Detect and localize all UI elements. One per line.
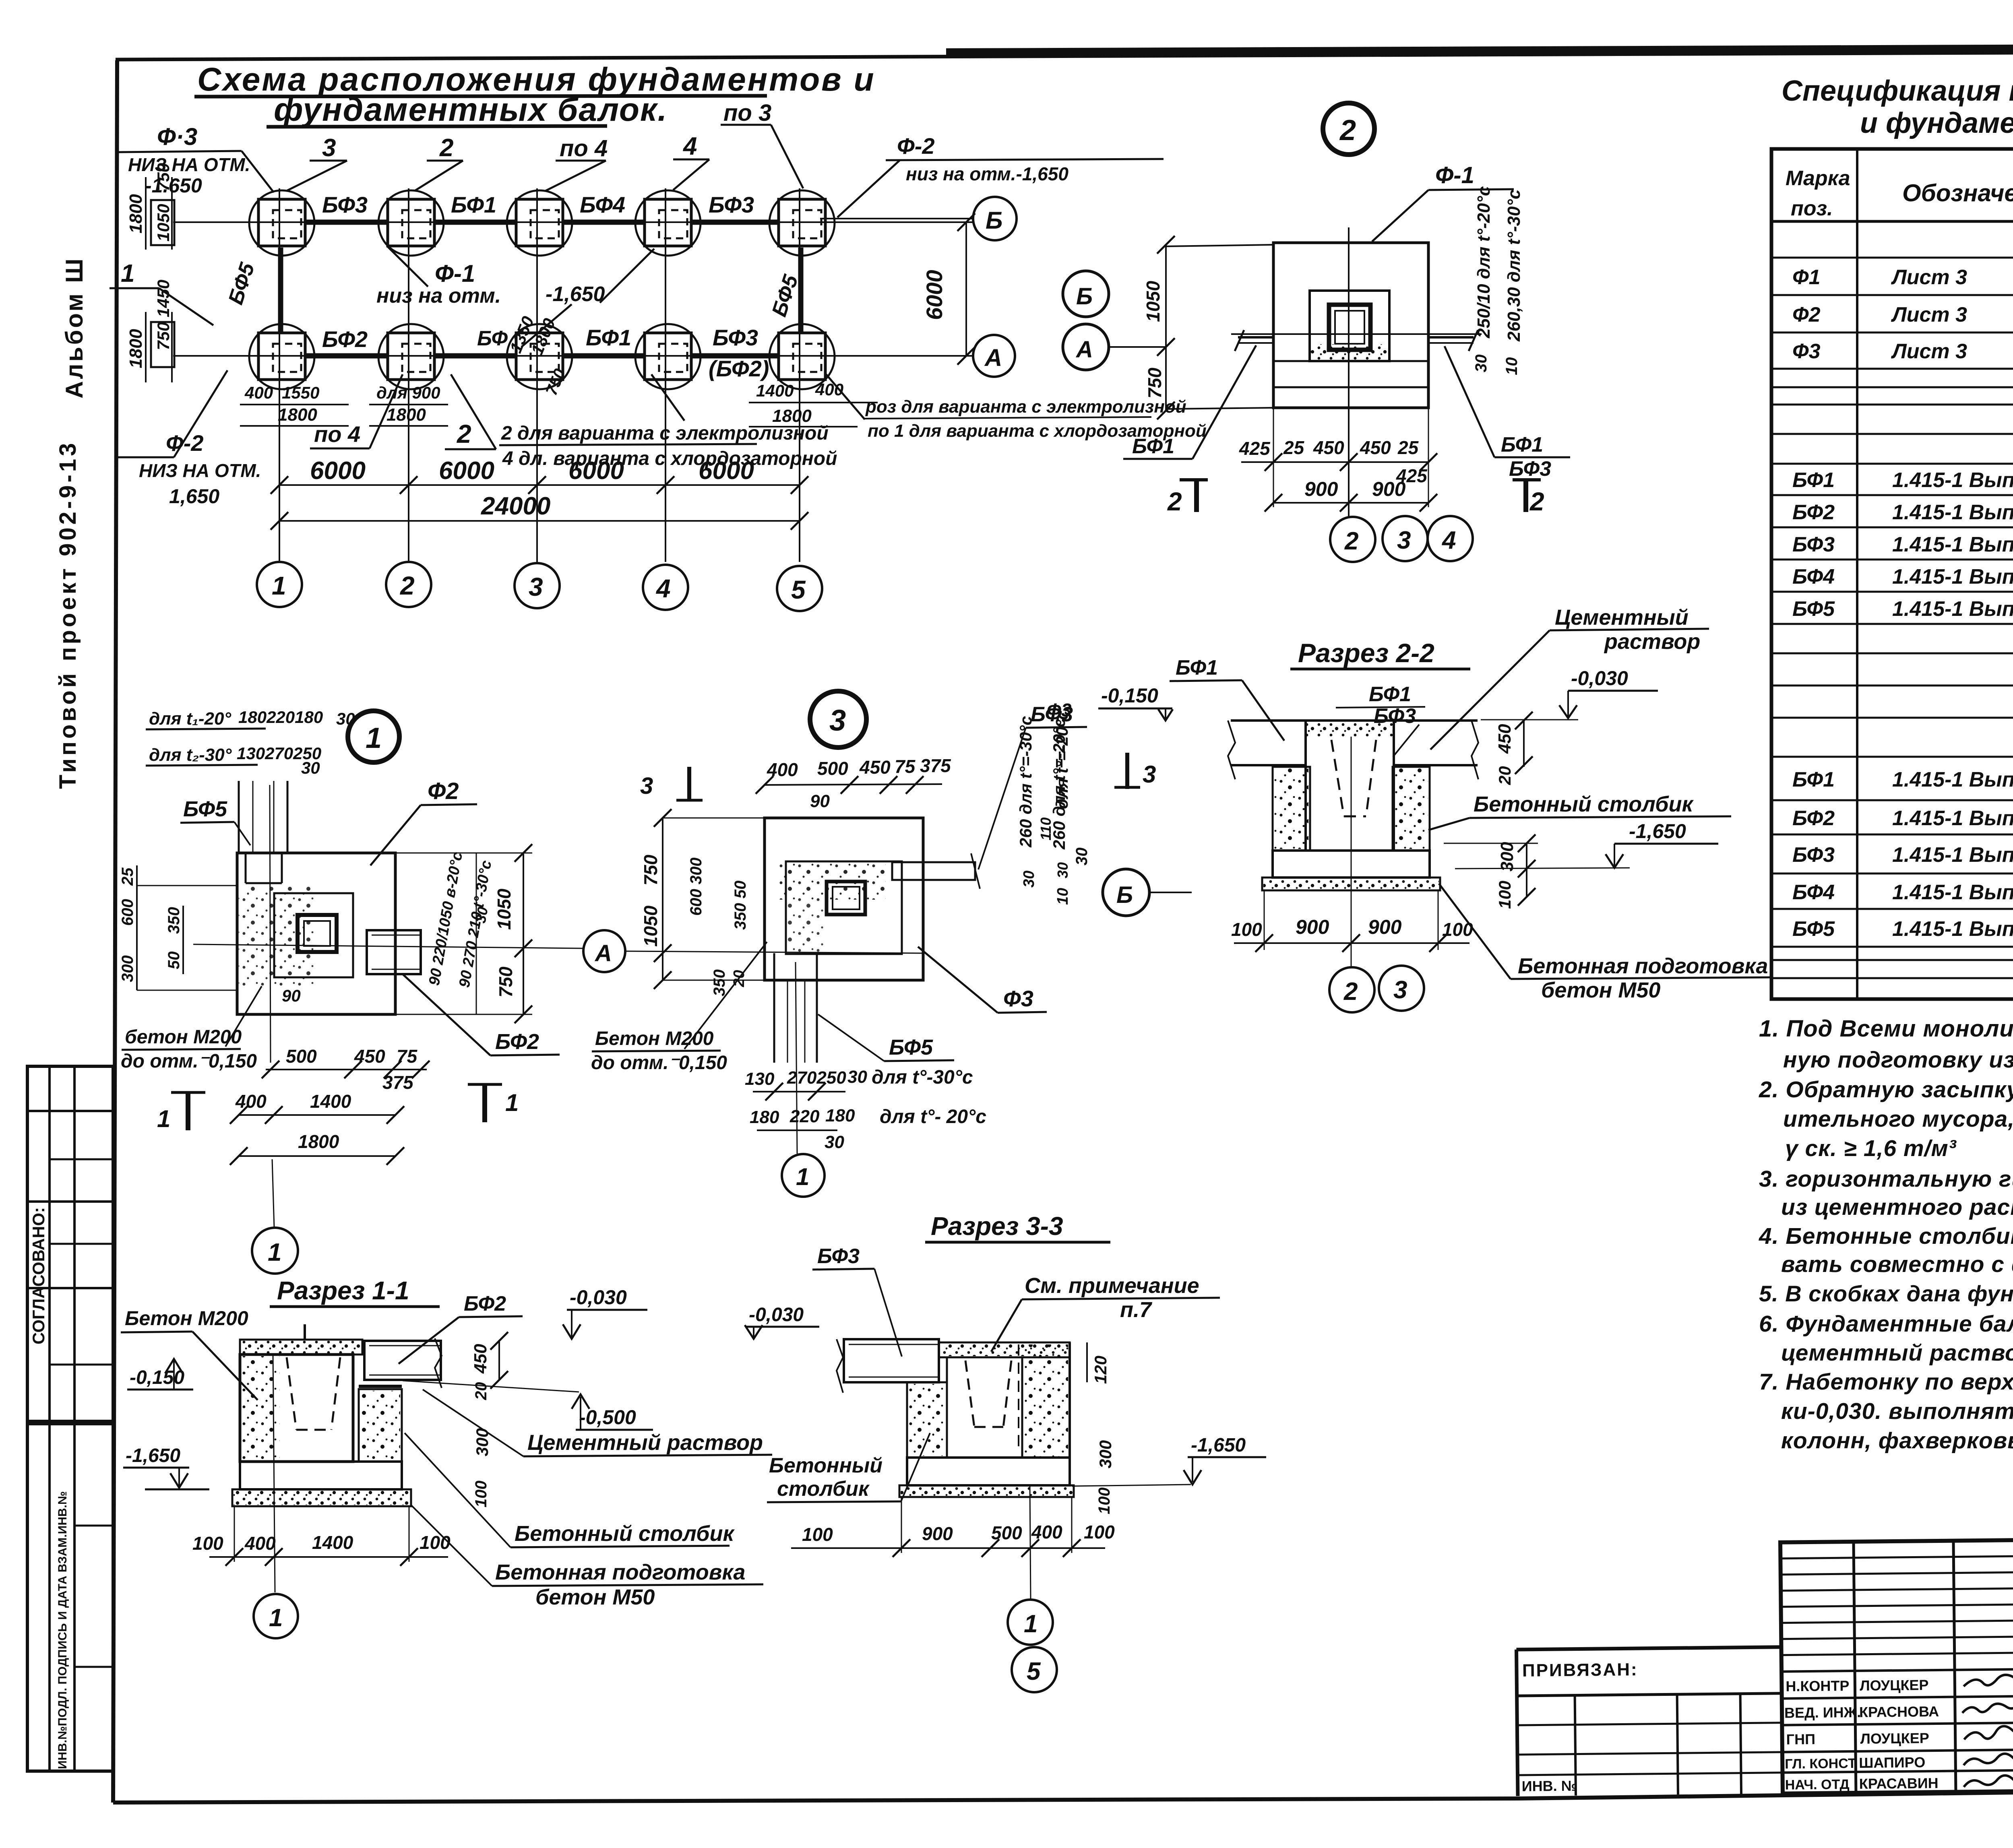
plan: grid bubble 5 (777, 566, 822, 611)
section 1-1: elevation -1,650 left (123, 1445, 209, 1489)
section 1-1: label Цементный раствор (423, 1390, 772, 1456)
svg-text:2: 2 (457, 419, 471, 448)
detail 1: бетон М200 label (121, 986, 262, 1072)
svg-text:Б: Б (1076, 283, 1093, 310)
plan: callout 4 (673, 132, 709, 190)
svg-text:450: 450 (1495, 724, 1515, 754)
svg-text:30: 30 (301, 758, 320, 777)
detail 1: left rotated dims (119, 865, 238, 990)
svg-text:1: 1 (268, 1239, 281, 1266)
detail 2: beam БФ1 left (1235, 330, 1273, 351)
svg-text:Спецификация к схеме расположе: Спецификация к схеме расположения фундам… (1782, 75, 2013, 107)
svg-text:ИНВ.№ПОДЛ. ПОДПИСЬ И ДАТА ВЗ: ИНВ.№ПОДЛ. ПОДПИСЬ И ДАТА ВЗАМ.ИНВ.№ (56, 1491, 69, 1769)
section 1-1: right rotated dims 450 20 300 100 (471, 1332, 508, 1507)
detail 3: label Ф3 (918, 947, 1047, 1013)
plan: foundation beam БФ3 (Б,4-5) (691, 220, 778, 225)
svg-text:1: 1 (121, 260, 134, 287)
detail 1: axis horizontal (193, 944, 583, 948)
svg-text:Цементный: Цементный (1555, 605, 1689, 630)
svg-text:Бетонная подготовка: Бетонная подготовка (1518, 954, 1768, 978)
svg-text:1.415-1 Вып.1: 1.415-1 Вып.1 (1892, 881, 2013, 904)
plan: column axis vertical 3 (536, 188, 538, 562)
svg-text:БФ4: БФ4 (1792, 881, 1835, 904)
svg-text:3: 3 (529, 572, 543, 601)
plan: callout Ф-3 top left (117, 123, 274, 197)
svg-text:1.415-1 Вып.1: 1.415-1 Вып.1 (1892, 501, 2013, 524)
svg-text:БФ2: БФ2 (1792, 807, 1835, 830)
section 3-3: foundation body (939, 1342, 1070, 1458)
svg-text:-1,650: -1,650 (126, 1445, 180, 1466)
svg-text:350 50: 350 50 (732, 881, 749, 930)
svg-text:БФ5: БФ5 (1792, 597, 1835, 621)
plan: callout по 4 bottom (310, 374, 403, 448)
section 2-2 title (1290, 638, 1470, 669)
svg-text:БФ2: БФ2 (464, 1292, 506, 1315)
detail 2: rotated labels для t (1472, 186, 1524, 375)
detail 1: beam БФ5 vertical from top (239, 781, 287, 853)
svg-text:БФ4: БФ4 (1792, 565, 1835, 588)
svg-text:750: 750 (154, 163, 173, 191)
svg-text:А: А (594, 940, 612, 966)
svg-text:600: 600 (119, 899, 136, 926)
svg-text:4. Бетонные столбики под фунда: 4. Бетонные столбики под фундаментные ба… (1759, 1223, 2013, 1249)
svg-text:1.415-1 Вып.1: 1.415-1 Вып.1 (1892, 917, 2013, 941)
section 2-2: label Бетонный столбик (1428, 792, 1731, 830)
svg-text:400: 400 (815, 380, 843, 399)
plan: column axis vertical 5 (799, 188, 800, 562)
detail 3: label Бетон М200 (591, 942, 767, 1074)
svg-text:Обозначение: Обозначение (1902, 180, 2013, 206)
svg-text:бетон М200: бетон М200 (125, 1026, 242, 1048)
svg-text:Ф·3: Ф·3 (157, 123, 197, 150)
section 1-1: axis + bubble 1 bottom (254, 1355, 298, 1638)
detail 2: concrete dots under column (1311, 344, 1388, 361)
svg-text:Б: Б (986, 207, 1002, 234)
svg-text:цементный раствор.: цементный раствор. (1781, 1340, 2013, 1366)
svg-text:Ф-2: Ф-2 (897, 133, 935, 159)
svg-text:1050: 1050 (154, 204, 173, 242)
section 1-1: label Бетон М200 (121, 1307, 258, 1400)
plan: foundation beam БФ1 (Б,2-3) (434, 220, 516, 225)
detail 3: outer foundation square (765, 818, 923, 980)
svg-text:бетон М50: бетон М50 (1541, 978, 1660, 1002)
svg-text:100: 100 (1084, 1522, 1115, 1542)
svg-text:Ф2: Ф2 (428, 778, 459, 804)
svg-text:1.415-1 Вып.1: 1.415-1 Вып.1 (1892, 597, 2013, 621)
plan: dims under foundation А5 (749, 380, 878, 427)
svg-text:300: 300 (1497, 842, 1517, 871)
svg-text:1: 1 (796, 1163, 809, 1190)
detail 2: bottom band line (1273, 360, 1428, 362)
svg-text:2: 2 (1343, 978, 1358, 1006)
svg-text:А: А (1075, 337, 1093, 363)
section 2-2: dim 450 20 right (1495, 712, 1533, 785)
svg-text:Лист 3: Лист 3 (1891, 303, 1967, 326)
detail 1: beam slot U at top (246, 853, 282, 883)
detail 3: beam stub right (892, 853, 980, 889)
detail 1: rotated dim columns right (426, 851, 495, 989)
svg-text:Лист 3: Лист 3 (1891, 266, 1967, 289)
detail 1: section mark 1 left (157, 1092, 205, 1132)
section 1-1: vertical mark on top (304, 1324, 306, 1340)
section 3-3: axis + bubbles 1 5 (1008, 1485, 1057, 1692)
svg-text:и фундаментных балок.: и фундаментных балок. (1860, 107, 2013, 139)
svg-text:-0,030: -0,030 (1571, 667, 1628, 690)
svg-text:50: 50 (165, 952, 183, 970)
svg-text:90 270 210 t°-30°с: 90 270 210 t°-30°с (456, 859, 495, 989)
svg-text:БФ1: БФ1 (1176, 656, 1218, 679)
svg-text:для t₂-30°: для t₂-30° (149, 745, 232, 765)
detail 1: bottom dim 1800 (230, 1131, 404, 1165)
section 2-2: axis line down (1351, 737, 1352, 966)
svg-text:γ ск. ≥ 1,6 т/м³: γ ск. ≥ 1,6 т/м³ (1785, 1136, 1957, 1161)
svg-text:400: 400 (235, 1091, 267, 1112)
section 2-2: column outer (1306, 721, 1394, 851)
plan: foundation at axis 4/B (635, 190, 701, 256)
plan: grid bubble 2 (386, 562, 431, 607)
svg-text:300: 300 (119, 955, 136, 982)
svg-text:ную подготовку из бетона м50 т: ную подготовку из бетона м50 толщиной 10… (1783, 1047, 2013, 1073)
detail 1: right dim extensions 1050 750 (395, 844, 532, 1023)
svg-text:БФ1: БФ1 (1501, 433, 1543, 456)
svg-text:100: 100 (1495, 881, 1514, 909)
svg-text:Бетонный столбик: Бетонный столбик (1474, 792, 1694, 816)
detail 1: inner square (274, 893, 353, 977)
svg-text:500: 500 (991, 1522, 1022, 1543)
left margin stamp table (СОГЛАСОВАНО) (27, 1066, 113, 1421)
left margin stamp table 2 (ИНВ №) (27, 1424, 113, 1771)
svg-text:90: 90 (810, 791, 830, 811)
title block: left ПРИВЯЗАН box (1517, 1647, 1783, 1796)
plan: variant note right (826, 374, 1207, 441)
detail 2: axis vertical (1348, 227, 1350, 517)
section 3-3: right column dots (1024, 1344, 1068, 1456)
svg-text:425: 425 (1239, 438, 1271, 459)
plan: callout 3 (287, 134, 347, 191)
section 3-3: beam БФ3 left (837, 1339, 939, 1393)
svg-text:для t°- 20°с: для t°- 20°с (880, 1106, 986, 1127)
plan: grid bubble 4 (643, 565, 688, 610)
title block: central signature table (1780, 1540, 2013, 1794)
svg-text:90: 90 (282, 986, 301, 1005)
svg-text:-0,150: -0,150 (130, 1367, 184, 1388)
svg-text:БФ5: БФ5 (224, 260, 259, 308)
svg-text:5. В скобках дана фундаментная: 5. В скобках дана фундаментная балка для… (1759, 1281, 2013, 1306)
svg-text:1.415-1 Вып.1: 1.415-1 Вып.1 (1892, 565, 2013, 588)
plan: foundation at axis 1/B (249, 190, 314, 256)
svg-text:75: 75 (895, 756, 916, 777)
svg-text:1: 1 (505, 1089, 519, 1116)
svg-text:НАЧ. ОТД: НАЧ. ОТД (1785, 1777, 1850, 1793)
svg-text:низ на отм.-1,650: низ на отм.-1,650 (906, 163, 1069, 184)
plan: grid bubble 1 (257, 562, 302, 607)
svg-text:ЛОУЦКЕР: ЛОУЦКЕР (1860, 1730, 1929, 1747)
detail 1: axis vertical (270, 785, 271, 1063)
section 2-2: concrete post left (1273, 767, 1310, 851)
svg-text:БФ2: БФ2 (495, 1030, 539, 1054)
section 2-2: bottom dims 100 900 900 100 (1231, 890, 1473, 952)
detail 1 bubble (348, 711, 399, 762)
svg-text:НИЗ НА ОТМ.: НИЗ НА ОТМ. (139, 460, 261, 481)
detail 2: outer foundation square (1273, 243, 1428, 408)
svg-text:450: 450 (859, 757, 891, 778)
svg-text:180: 180 (825, 1106, 855, 1125)
svg-text:по 3: по 3 (723, 100, 771, 126)
svg-text:для 900: для 900 (376, 383, 440, 402)
section 2-2: elevation -1,650 (1455, 820, 1718, 869)
spec table headers (1786, 167, 2013, 221)
svg-text:130: 130 (745, 1069, 775, 1089)
svg-text:1800: 1800 (126, 194, 146, 233)
svg-text:БФ1: БФ1 (1132, 435, 1174, 458)
svg-text:350: 350 (165, 907, 183, 934)
plan: dim line 6000 row (271, 457, 808, 494)
svg-text:ки-0,030. выполнять из бетона: ки-0,030. выполнять из бетона марки „100… (1781, 1398, 2013, 1424)
plan: foundation beam БФ3 (Б,1-2) (305, 220, 387, 225)
svg-text:10: 10 (1503, 357, 1521, 376)
svg-text:30: 30 (1472, 355, 1490, 373)
detail 1: top dims для t -20 (146, 708, 355, 729)
plan: axis line А (173, 355, 974, 357)
svg-text:30: 30 (1021, 871, 1038, 888)
svg-text:Лист 3: Лист 3 (1891, 340, 1967, 363)
svg-text:Разрез 2-2: Разрез 2-2 (1298, 638, 1434, 668)
detail 2: inner column square (1329, 305, 1370, 350)
detail 2: label БФ1 БФ3 right (1445, 346, 1570, 481)
section 1-1: pedestal (240, 1462, 402, 1489)
svg-text:до отм.⁻0,150: до отм.⁻0,150 (591, 1052, 727, 1074)
section 2-2: beam band right (1394, 721, 1478, 779)
detail 3 bubble (810, 691, 866, 747)
svg-text:6000: 6000 (310, 457, 366, 485)
section 2-2: dims 300 100 right (1444, 834, 1538, 909)
detail 3: axis horizontal + А bubble (583, 930, 923, 972)
detail 3: rotated для t labels right (1016, 716, 1071, 905)
svg-text:20: 20 (472, 1382, 490, 1401)
svg-text:400: 400 (1031, 1522, 1062, 1542)
svg-text:3: 3 (322, 134, 336, 162)
section 1-1: bottom dims 100 400 1400 100 (192, 1506, 451, 1566)
svg-text:4 дл. варианта с хлордозаторно: 4 дл. варианта с хлордозаторной (502, 448, 837, 469)
detail 1: concrete dots area (239, 886, 315, 988)
svg-text:750: 750 (543, 366, 569, 398)
svg-text:2: 2 (1529, 487, 1544, 516)
plan: foundation beam БФ3(БФ2) (А,4-5) (691, 353, 778, 359)
svg-text:Разрез 3-3: Разрез 3-3 (931, 1212, 1063, 1241)
svg-text:БФ3: БФ3 (817, 1245, 860, 1268)
svg-text:БФ1: БФ1 (586, 325, 631, 350)
svg-text:1050: 1050 (1143, 281, 1164, 322)
svg-text:24000: 24000 (481, 492, 550, 520)
detail 3: beam БФ5 down (774, 953, 817, 1063)
section 3-3: elevation -1,650 right (1072, 1435, 1266, 1486)
section 2-2: column top dotted band (1307, 722, 1393, 737)
plan: callout 2 bottom + variant note (445, 374, 837, 469)
section 1-1: label Бетонный столбик (405, 1433, 735, 1547)
svg-text:БФ3: БФ3 (709, 192, 754, 217)
svg-text:450: 450 (1360, 437, 1391, 458)
svg-text:400: 400 (244, 1533, 276, 1554)
svg-text:3: 3 (1393, 976, 1407, 1004)
detail 3: axis vertical to bubble 1 (796, 962, 797, 1154)
svg-text:БФ5: БФ5 (183, 797, 227, 821)
section 3-3: rotated dims right (1087, 1342, 1115, 1514)
section 1-1: elevation -0,500 right (403, 1381, 653, 1430)
svg-text:30: 30 (847, 1067, 867, 1087)
svg-text:БФ3: БФ3 (1509, 457, 1551, 481)
section 3-3: bottom dims 100 900 500 400 100 (791, 1497, 1115, 1557)
svg-text:450: 450 (354, 1046, 385, 1067)
svg-text:400: 400 (244, 383, 273, 402)
svg-text:3: 3 (829, 704, 846, 737)
svg-text:из цементного раствора состава: из цементного раствора состава 1:2, толщ… (1781, 1194, 2013, 1220)
svg-text:БФ1: БФ1 (1369, 683, 1411, 706)
plan: callout по 3 (721, 100, 803, 188)
section 1-1: stakan dashed (287, 1357, 340, 1430)
svg-text:270250: 270250 (787, 1068, 846, 1088)
svg-text:Ф-1: Ф-1 (1435, 162, 1474, 188)
svg-text:1: 1 (1024, 1610, 1038, 1638)
svg-text:1800: 1800 (772, 406, 812, 426)
svg-text:Цементный раствор: Цементный раствор (527, 1431, 763, 1455)
section 3-3 title (925, 1212, 1110, 1242)
svg-text:БФ1: БФ1 (1792, 768, 1835, 791)
plan: axis line Б (173, 221, 974, 223)
section 2-2: labels БФ1 БФ3 above column (1336, 683, 1425, 757)
section 1-1: foundation body (240, 1355, 353, 1462)
svg-text:260 для t°=-30°с: 260 для t°=-30°с (1016, 716, 1035, 848)
detail 2: label БФ1 left (1123, 345, 1256, 459)
svg-text:1,650: 1,650 (169, 485, 219, 508)
plan: callout Ф-1 центр (376, 246, 654, 347)
section 2-2: stakan dashed (1331, 740, 1376, 816)
svg-text:450: 450 (1313, 437, 1344, 458)
svg-text:1400: 1400 (310, 1091, 351, 1112)
svg-text:1.415-1 Вып.1: 1.415-1 Вып.1 (1892, 469, 2013, 492)
svg-text:1: 1 (157, 1105, 170, 1132)
detail 3: top dims 400 500 450 75 375 (756, 755, 951, 811)
detail 2: axis horizontal (1231, 333, 1482, 335)
section 3-3: slab (899, 1485, 1074, 1497)
section 2-2: section mark 3 left (1114, 753, 1156, 789)
detail 2: section mark 2 left (1167, 480, 1208, 516)
detail 3: concrete dots (777, 863, 886, 900)
svg-text:БФ3: БФ3 (1792, 843, 1835, 867)
section 2-2: bubbles 2 3 (1329, 967, 1374, 1012)
svg-text:1550: 1550 (282, 383, 319, 402)
plan: foundation at axis 1/A (249, 324, 314, 389)
svg-text:100: 100 (472, 1480, 490, 1507)
svg-text:БФ3: БФ3 (1792, 533, 1835, 556)
svg-text:ГЛ. КОНСТ: ГЛ. КОНСТ (1785, 1756, 1856, 1772)
plan: grid bubble Б right (820, 197, 1017, 240)
plan: column axis vertical 4 (665, 188, 666, 562)
plan: left dim stack А row (126, 280, 174, 382)
detail 3: stakan (827, 882, 865, 915)
svg-text:по 4: по 4 (560, 135, 608, 161)
svg-text:Альбом Ш: Альбом Ш (61, 256, 88, 399)
plan: foundation beam БФ1 (А,3-4) (562, 353, 644, 359)
svg-text:-0,500: -0,500 (579, 1406, 636, 1429)
section 1-1: body dots left (242, 1356, 280, 1460)
svg-text:БФ2: БФ2 (1792, 501, 1835, 524)
svg-text:СОГЛАСОВАНО:: СОГЛАСОВАНО: (29, 1207, 48, 1344)
svg-text:100: 100 (1095, 1487, 1113, 1514)
svg-text:375: 375 (382, 1072, 414, 1093)
svg-text:500: 500 (817, 758, 848, 779)
section 2-2: label Бетонная подготовка бетон М50 (1439, 884, 1771, 1002)
svg-text:(БФ2): (БФ2) (709, 356, 769, 381)
section 3-3: concrete post left (907, 1382, 947, 1458)
detail 2: dim vertical 1050/750 left (1143, 236, 1273, 419)
section 1-1: elevation -0,030 (563, 1286, 647, 1339)
svg-text:2: 2 (1339, 114, 1356, 147)
svg-text:7. Набетонку по верху стаканно: 7. Набетонку по верху стаканной части фу… (1759, 1369, 2013, 1395)
section 2-2: подготовка slab (1262, 878, 1440, 890)
detail 1: bottom dims 400 1400 (230, 1091, 404, 1124)
svg-text:900: 900 (1368, 916, 1402, 938)
svg-text:6. Фундаментные балки укладыва: 6. Фундаментные балки укладываются на св… (1759, 1311, 2013, 1337)
section 1-1: foundation top band (240, 1340, 362, 1355)
svg-text:БФ1: БФ1 (451, 192, 496, 217)
svg-text:1800: 1800 (386, 405, 426, 425)
svg-text:750 1450: 750 1450 (154, 280, 173, 350)
plan: foundation at axis 2/B (378, 190, 444, 256)
detail 1: label БФ2 (403, 974, 560, 1055)
svg-text:Ф-1: Ф-1 (435, 260, 475, 287)
svg-text:1400: 1400 (756, 381, 794, 400)
svg-text:А: А (984, 344, 1002, 371)
svg-text:1800: 1800 (126, 329, 146, 368)
svg-text:900: 900 (1372, 478, 1406, 500)
section 2-2: elevation -0,030 (1481, 667, 1658, 720)
svg-text:Типовой проект 902-9-13: Типовой проект 902-9-13 (55, 440, 81, 789)
plan: grid bubble 3 (515, 563, 560, 608)
svg-text:ИНВ. №: ИНВ. № (1522, 1778, 1577, 1794)
svg-text:См. примечание: См. примечание (1025, 1274, 1199, 1298)
svg-text:1: 1 (366, 722, 382, 754)
section 2-2: pedestal (1273, 851, 1430, 878)
section 1-1: concrete post (359, 1386, 402, 1462)
svg-text:Разрез 1-1: Разрез 1-1 (277, 1276, 409, 1305)
detail 2 bubble (1323, 103, 1374, 155)
plan: callout по 4 (546, 135, 608, 191)
svg-text:для t₁-20°: для t₁-20° (149, 709, 231, 729)
detail 2: bottom dims 900 900 (1265, 408, 1437, 512)
svg-text:1.415-1 Вып.1: 1.415-1 Вып.1 (1892, 768, 2013, 791)
detail 2: section mark 2 right (1513, 480, 1544, 516)
svg-text:4: 4 (1441, 527, 1456, 554)
detail 1: top dims для t -30 (146, 744, 321, 777)
svg-text:900: 900 (922, 1523, 953, 1544)
section 1-1 title (270, 1276, 440, 1307)
svg-text:600 300: 600 300 (687, 857, 705, 916)
section 3-3: label БФ3 (812, 1245, 902, 1357)
svg-text:Н.КОНТР: Н.КОНТР (1786, 1677, 1849, 1695)
detail 3: inner outline (786, 861, 902, 954)
detail 2: stepped stakan square (1310, 291, 1389, 361)
section 2-2: Б bubble left (1103, 869, 1192, 916)
svg-text:1: 1 (272, 571, 286, 600)
plan: foundation at axis 2/A (378, 324, 444, 389)
svg-text:-0,030: -0,030 (570, 1286, 627, 1309)
plan: column axis vertical 1 (279, 188, 280, 562)
svg-text:вать совместно с фундаментами: вать совместно с фундаментами под колонн… (1781, 1251, 2013, 1277)
section 3-3: stakan dashed (965, 1344, 1019, 1449)
notes (1759, 1016, 2013, 1454)
svg-text:БФ3: БФ3 (322, 192, 368, 217)
section 2-2: elevation -0,150 (1098, 684, 1173, 721)
